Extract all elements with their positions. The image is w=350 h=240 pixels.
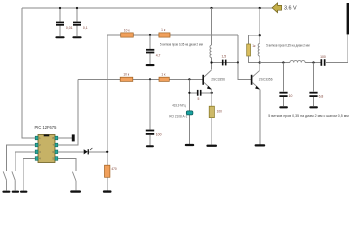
wire R5 to ground [211, 118, 213, 145]
pin 5 [55, 157, 58, 161]
node dot output x283.4 [282, 61, 284, 63]
test point bar at pin8 [72, 134, 75, 141]
wire bias row 2 [78, 78, 202, 80]
svg-text:5 витков пров 0,35 на диам 2 м: 5 витков пров 0,35 на диам 2 мм [160, 42, 203, 46]
svg-text:1,5: 1,5 [221, 55, 226, 59]
inductor L2 (4 turns) [258, 44, 260, 56]
capacitor C2 0,1 [73, 8, 88, 36]
wire pin2 to switch S1 [7, 145, 36, 171]
node dot diode junction [106, 151, 108, 153]
pin 1 [35, 136, 38, 140]
ground under Q2 emitter [255, 144, 266, 146]
resistor R6 1k (tank2) [247, 44, 256, 56]
capacitor C3 4,7 (decoupling row1) [146, 35, 161, 64]
SAW resonator ZQ1 [169, 104, 193, 119]
wire R6 bottom to tank2 node [249, 56, 260, 63]
wire output line [260, 34, 348, 62]
wire L2 bottom to collector [259, 56, 261, 70]
svg-text:4,7: 4,7 [156, 53, 161, 57]
ground under S1 [2, 191, 10, 193]
ground under C7 [279, 106, 288, 108]
pin 7 [55, 143, 58, 147]
ground under R7 [103, 190, 112, 192]
resistor R5 100 (Q1 emitter) [209, 106, 222, 117]
capacitor C1 0,01 [56, 8, 73, 36]
svg-text:1 к: 1 к [161, 28, 166, 32]
pin 6 [55, 150, 58, 154]
svg-text:10 к: 10 к [123, 73, 129, 77]
svg-text:PIC 12F675: PIC 12F675 [35, 125, 58, 130]
ground under C4 [146, 145, 154, 147]
node dot tank1 bottom [210, 61, 212, 63]
wire top supply rail [22, 7, 272, 9]
svg-text:10: 10 [289, 94, 293, 98]
diode D1 [84, 148, 93, 154]
resistor R7 470 [105, 165, 117, 177]
wire pin6 to diode [58, 151, 107, 153]
ground under S2 [12, 191, 19, 193]
pin 3 [35, 150, 38, 154]
svg-text:0,1: 0,1 [83, 26, 88, 30]
svg-text:6,8: 6,8 [319, 95, 324, 99]
node dot crystal-cap5 [188, 92, 190, 94]
wire R7 to ground [106, 177, 108, 190]
svg-text:100: 100 [217, 110, 223, 114]
ground under C3 [146, 64, 155, 66]
node dot tank2 top [259, 34, 261, 36]
wire vertical keyed-supply x107 [106, 35, 108, 165]
wire bias row 1 [107, 34, 238, 36]
wire tank1 cap branch [212, 35, 238, 63]
capacitor C5 5 [197, 90, 202, 101]
wire tank2 resistor branch [249, 35, 260, 44]
antenna [347, 3, 349, 34]
svg-text:5: 5 [198, 97, 200, 101]
svg-text:10 к: 10 к [124, 28, 130, 32]
node dot rail x77 [76, 7, 78, 9]
node dot rail x259.7 [259, 7, 261, 9]
ground under ZQ1 [185, 144, 194, 146]
wire left supply drop to pin 1 [22, 8, 35, 138]
wire pin4 to ground [23, 159, 35, 191]
wire tank1 vertical from rail [211, 8, 213, 45]
resistor R1 10k (row1 left) [121, 28, 134, 37]
IC U1 PIC 12F675 [35, 125, 58, 162]
svg-text:1к: 1к [252, 44, 256, 48]
wire Q2 base feed [238, 63, 251, 80]
svg-text:5 витков пров 0,35 на диам 2 м: 5 витков пров 0,35 на диам 2 мм [266, 44, 310, 48]
wire cap5 link base-emitter [189, 92, 211, 94]
ground under C8 [309, 106, 318, 108]
node dot row2 x189.4 [188, 78, 190, 80]
svg-text:0,01: 0,01 [66, 26, 73, 30]
svg-text:RO 2108 A-1: RO 2108 A-1 [169, 115, 187, 119]
resistor R2 1k (row1 right) [159, 28, 170, 37]
svg-text:2SC3356: 2SC3356 [259, 78, 273, 82]
switch S2 [12, 171, 15, 190]
svg-text:100: 100 [156, 132, 162, 136]
pin 8 [55, 136, 58, 140]
svg-text:433,9 МГц: 433,9 МГц [172, 104, 186, 108]
node dot emitter-cap5 [211, 92, 213, 94]
ground under C2 [72, 36, 81, 38]
node dot cap branch x237.9 [237, 61, 239, 63]
wire tank2 vertical from rail [259, 8, 261, 44]
svg-text:1 к: 1 к [161, 73, 166, 77]
node dot rail x60 [59, 7, 61, 9]
inductor L3 (output, 4 turns) [290, 60, 305, 62]
node dot output x313.5 [312, 61, 314, 63]
pin 4 [35, 157, 38, 161]
capacitor C7 10 (pi filter) [279, 63, 292, 107]
node dot row2 x150 [149, 78, 151, 80]
svg-text:3.6 V: 3.6 V [284, 6, 297, 12]
node dot tank2 bottom [259, 61, 261, 63]
resistor R3 10k (row2 left) [120, 73, 133, 82]
capacitor C6 1,5 [221, 55, 226, 66]
wire L1 bottom to collector node [211, 58, 213, 70]
wire Q2 emitter to ground [259, 89, 261, 144]
ground under pin4 wire [20, 191, 27, 193]
svg-text:100: 100 [320, 55, 326, 59]
wire pin3 to switch S2 [15, 152, 35, 171]
svg-text:5 витков пров 0,35 на диам 2 м: 5 витков пров 0,35 на диам 2 мм с шагом … [268, 114, 349, 118]
inductor L1 (4 turns) [210, 45, 212, 57]
power arrow 3.6 V [272, 3, 282, 13]
capacitor C8 6,8 (pi filter) [309, 63, 323, 107]
ground under C1 [55, 36, 64, 38]
wire pin7 riser x78 [58, 79, 78, 145]
svg-text:470: 470 [111, 167, 117, 171]
transistor Q1 2SC3356 [202, 70, 225, 90]
node dot rail x211.5 [210, 7, 212, 9]
pin 2 [35, 143, 38, 147]
capacitor C9 100 (antenna coupling) [320, 55, 326, 66]
svg-text:2SC3356: 2SC3356 [211, 78, 225, 82]
wire Q1 emitter down [211, 89, 213, 106]
node dot row1 x150 [149, 34, 151, 36]
capacitor C4 100 (row2 to gnd) [146, 79, 162, 145]
wire pin8 stub [58, 137, 72, 139]
transistor Q2 2SC3356 [251, 70, 273, 89]
wire pin5 to switch S3 [58, 159, 76, 172]
switch S3 [72, 172, 76, 191]
ground under R5 [206, 145, 217, 147]
wire crystal branch x189.4 [188, 79, 190, 144]
ground under S3 [70, 190, 81, 192]
resistor R4 1k (row2 right) [159, 73, 169, 82]
switch S1 [3, 171, 6, 190]
